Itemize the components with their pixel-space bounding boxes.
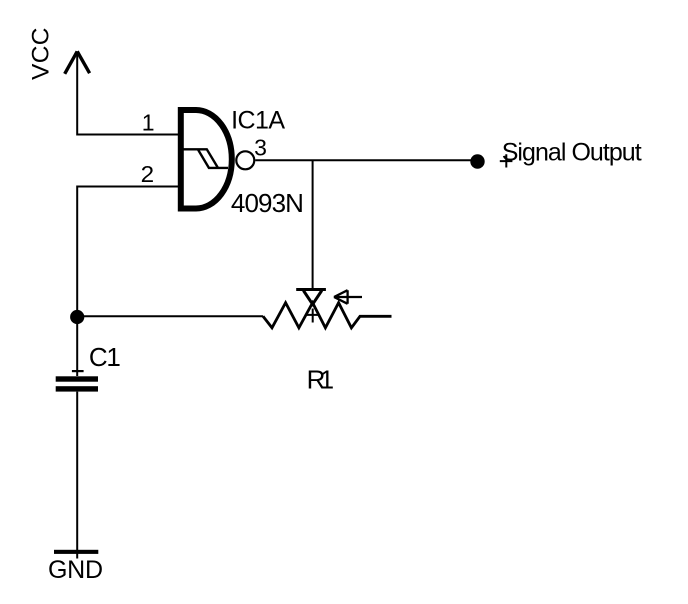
wire pin 2 to node A [77,187,178,317]
svg-text:VCC: VCC [28,28,55,81]
svg-text:4093N: 4093N [231,188,304,218]
anchor cross C1 [72,370,84,372]
svg-text:2: 2 [141,161,155,187]
wire node A to resistor [77,315,263,317]
node signal output dot [470,154,484,168]
wire node A to capacitor [76,316,78,376]
potentiometer wiper triangle [303,291,321,306]
svg-text:C1: C1 [89,342,121,372]
node A junction dot [70,310,84,324]
svg-text:3: 3 [254,135,267,161]
svg-text:1: 1 [142,109,155,135]
anchor cross R1 [306,309,319,323]
wire capacitor to ground [76,392,78,559]
svg-text:GND: GND [48,556,103,584]
VCC power arrow [65,51,90,73]
anchor cross signal output [500,154,513,167]
resistor R1 zigzag [263,303,392,328]
potentiometer wiper bar [296,288,326,291]
wire output branch to potentiometer [312,160,314,288]
schmitt hysteresis symbol [183,149,228,168]
output bubble pin 3 [236,151,254,169]
ground bar [54,550,98,554]
capacitor C1 plates [56,376,98,381]
svg-text:Signal Output: Signal Output [502,139,642,167]
svg-text:IC1A: IC1A [231,106,285,134]
wire output to signal dot [255,159,472,161]
wire VCC to pin 1 [77,51,178,134]
svg-text:R1: R1 [307,365,335,395]
adjustment arrow R1 [334,290,362,304]
gate IC1A body (4093N Schmitt NAND) [181,110,232,209]
